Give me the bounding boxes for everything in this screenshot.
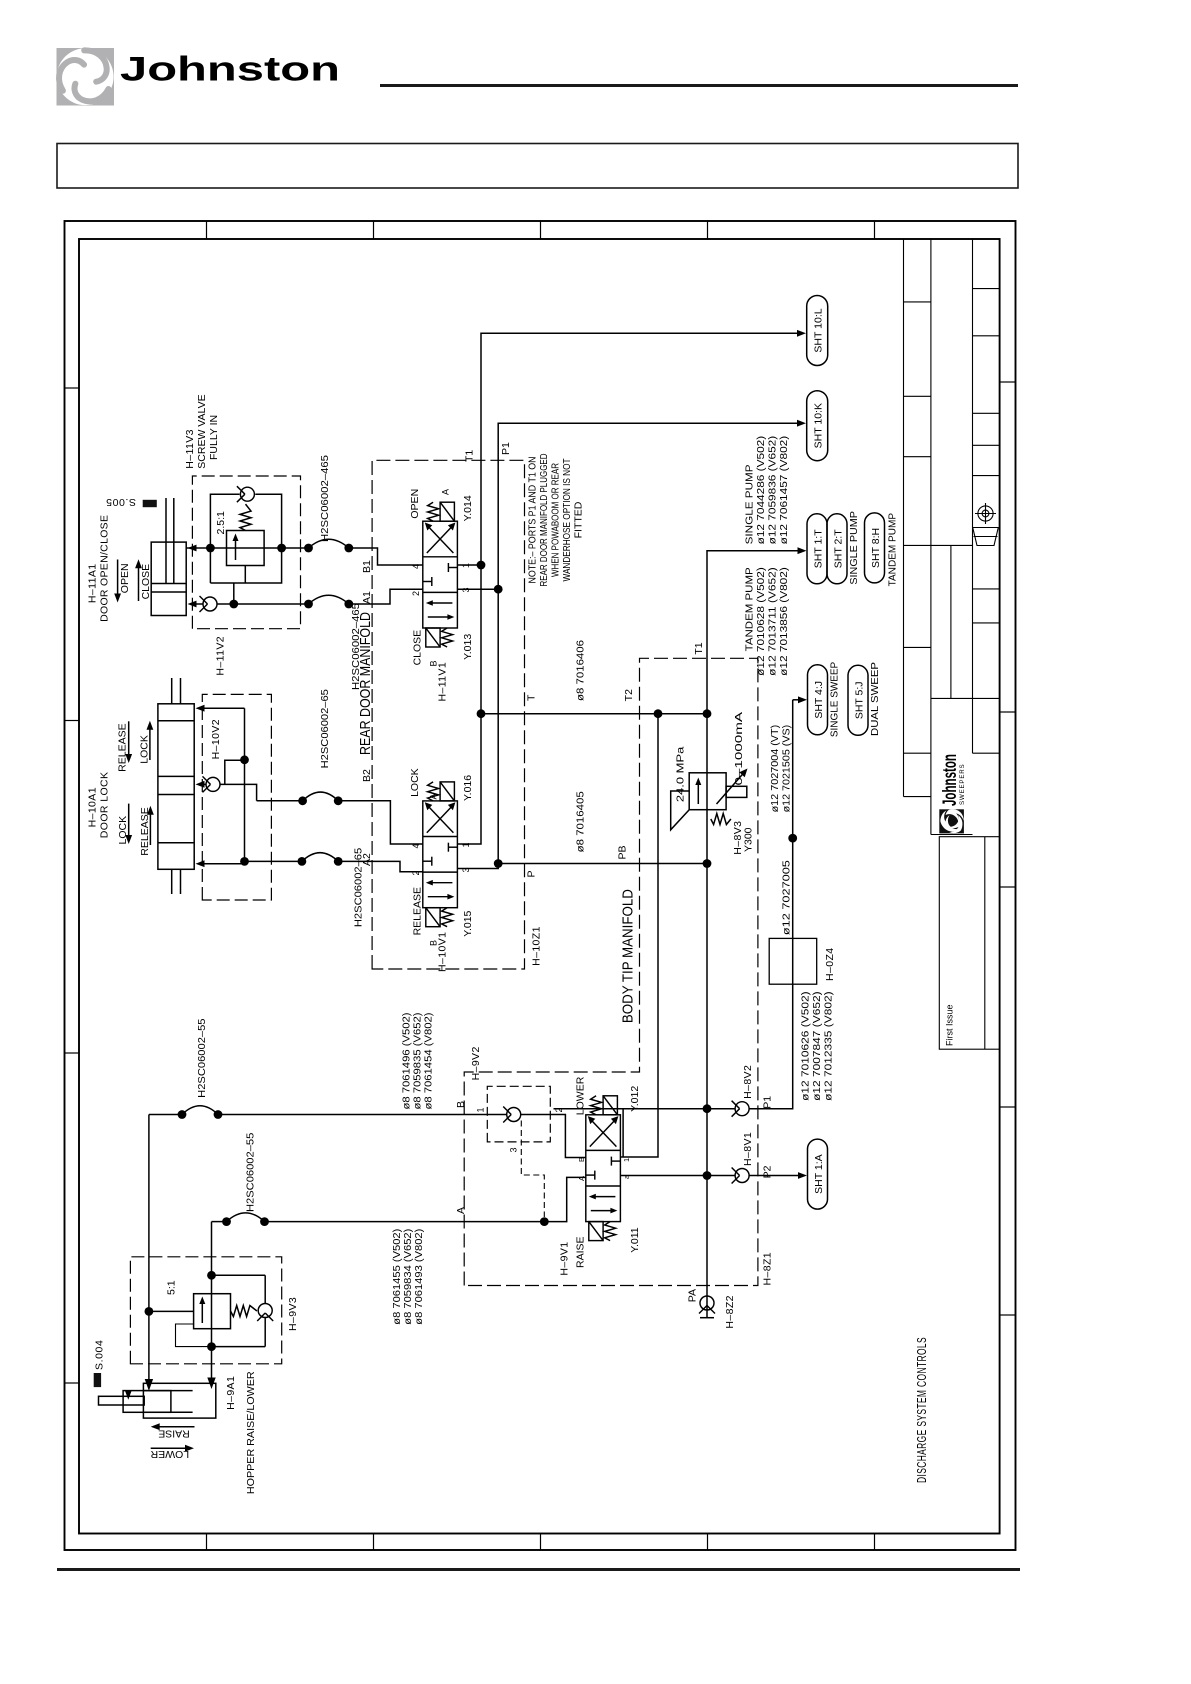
svg-text:ø8 7059834 (V652): ø8 7059834 (V652) bbox=[403, 1229, 414, 1325]
svg-text:ø12 7061457 (V802): ø12 7061457 (V802) bbox=[779, 436, 790, 545]
wire B1 riser bbox=[186, 545, 308, 552]
svg-text:B1: B1 bbox=[361, 560, 373, 573]
svg-text:H–9V3: H–9V3 bbox=[287, 1297, 299, 1331]
svg-text:ø12 7013711 (V652): ø12 7013711 (V652) bbox=[768, 567, 779, 676]
valve H-9V1 (Y.011 / Y.012) bbox=[586, 1096, 621, 1241]
wire A (hopper lower line) bbox=[125, 1222, 227, 1400]
svg-text:SHT 1:A: SHT 1:A bbox=[813, 1154, 825, 1194]
svg-text:H–10V1: H–10V1 bbox=[437, 932, 449, 972]
relief square H-11V3 bbox=[227, 531, 265, 584]
svg-text:H2SC06002–65: H2SC06002–65 bbox=[319, 689, 331, 768]
NOTE text block bbox=[527, 453, 585, 586]
pilot line H-9V2 (dashed) bbox=[521, 1121, 544, 1218]
T1 rail bbox=[457, 333, 798, 844]
wire A to valve port A bbox=[544, 1177, 586, 1221]
svg-text:SHT 10:L: SHT 10:L bbox=[813, 308, 825, 352]
svg-text:SINGLE SWEEP: SINGLE SWEEP bbox=[829, 662, 841, 737]
svg-text:ø12 7010626 (V502): ø12 7010626 (V502) bbox=[801, 991, 812, 1101]
revision table (First Issue) bbox=[939, 837, 999, 1049]
svg-text:H–9A1: H–9A1 bbox=[225, 1376, 237, 1410]
junction dot A line bbox=[540, 1217, 549, 1226]
wire P1 drop (H-9V2 port 2 down through H-8V2) bbox=[554, 704, 793, 1109]
bubble SHT 2:T bbox=[827, 514, 847, 584]
part numbers VT/VS bbox=[770, 725, 793, 813]
svg-text:LOCK: LOCK bbox=[117, 816, 129, 845]
row2 cell dividers bbox=[931, 697, 973, 699]
check valve H-8V1 bbox=[732, 1168, 750, 1184]
hose H2SC06002-465 (B1) bbox=[304, 455, 353, 553]
svg-text:CLOSE: CLOSE bbox=[412, 630, 424, 666]
svg-text:Johnston: Johnston bbox=[940, 754, 961, 806]
svg-text:SHT 2:T: SHT 2:T bbox=[833, 529, 845, 568]
svg-text:SCREW VALVE: SCREW VALVE bbox=[196, 394, 208, 468]
arrow into SHT 10:K bbox=[797, 420, 806, 427]
svg-text:OPEN: OPEN bbox=[119, 563, 131, 593]
svg-text:T2: T2 bbox=[623, 689, 635, 701]
svg-text:H–0Z4: H–0Z4 bbox=[824, 947, 836, 981]
part numbers tandem pump bbox=[745, 567, 791, 676]
RAISE arrow bbox=[151, 1423, 195, 1439]
T drop from rear door manifold bbox=[481, 713, 707, 715]
CLOSE arrow bbox=[135, 559, 152, 601]
svg-text:P1: P1 bbox=[500, 442, 512, 455]
svg-text:H–10V2: H–10V2 bbox=[210, 719, 222, 759]
svg-text:B: B bbox=[429, 660, 439, 666]
svg-text:SINGLE PUMP: SINGLE PUMP bbox=[848, 511, 860, 585]
valve H-10V1 (Y.015 / Y.016) bbox=[423, 782, 458, 927]
P drop from rear door manifold bbox=[498, 863, 707, 865]
arrow into SHT 4:J bbox=[793, 696, 807, 704]
wire B2 to valve port 4 bbox=[338, 801, 423, 844]
svg-text:P: P bbox=[526, 870, 538, 877]
svg-text:LOCK: LOCK bbox=[409, 768, 421, 797]
svg-text:Y.016: Y.016 bbox=[462, 775, 474, 801]
svg-text:NOTE:– PORTS P1 AND T1 ON: NOTE:– PORTS P1 AND T1 ON bbox=[527, 457, 539, 584]
svg-text:B2: B2 bbox=[361, 769, 373, 782]
svg-text:2: 2 bbox=[411, 591, 421, 596]
svg-text:T1: T1 bbox=[464, 450, 476, 462]
svg-text:T1: T1 bbox=[693, 642, 705, 654]
proportional solenoid H-8V3 bbox=[726, 786, 747, 797]
svg-text:LOCK: LOCK bbox=[139, 735, 151, 764]
svg-text:Johnston: Johnston bbox=[120, 51, 340, 89]
svg-text:H2SC06002–55: H2SC06002–55 bbox=[196, 1018, 208, 1097]
footer rule bbox=[57, 1568, 1020, 1571]
svg-text:H–11V1: H–11V1 bbox=[437, 662, 449, 702]
junction dot P1 pump branch bbox=[788, 834, 797, 843]
svg-text:T: T bbox=[526, 694, 538, 701]
manifold H-11V2/V3 dashed box bbox=[192, 476, 300, 629]
plug tick PA end bbox=[700, 1317, 714, 1319]
svg-text:H–11V2: H–11V2 bbox=[215, 636, 227, 676]
svg-text:RELEASE: RELEASE bbox=[412, 887, 424, 935]
proportional relief H-8V3 square bbox=[689, 773, 726, 810]
part numbers P lines bbox=[801, 991, 835, 1101]
pilot loop H-11V3 bbox=[206, 494, 286, 583]
svg-text:5:1: 5:1 bbox=[166, 1280, 178, 1295]
svg-text:H–10A1: H–10A1 bbox=[87, 787, 99, 827]
svg-text:HOPPER RAISE/LOWER: HOPPER RAISE/LOWER bbox=[245, 1371, 257, 1494]
tank trunk line T1 bbox=[707, 551, 801, 1318]
margin zone ticks bottom bbox=[1000, 382, 1016, 1315]
svg-text:SHT 10:K: SHT 10:K bbox=[813, 403, 825, 448]
RELEASE/LOCK arrows right pair bbox=[117, 721, 154, 772]
svg-text:RELEASE: RELEASE bbox=[117, 723, 129, 771]
svg-text:Y.015: Y.015 bbox=[462, 910, 474, 936]
ball check H-9V3 bbox=[257, 1304, 273, 1322]
wire rod end to loop bbox=[196, 705, 245, 712]
svg-text:WHEN POWABOOM OR REAR: WHEN POWABOOM OR REAR bbox=[550, 463, 562, 577]
svg-text:PB: PB bbox=[617, 845, 629, 859]
manifold H-9V3 dashed box bbox=[130, 1257, 281, 1364]
margin zone ticks top bbox=[65, 388, 80, 1383]
svg-text:TANDEM PUMP: TANDEM PUMP bbox=[745, 567, 756, 651]
arrow into SHT 10:L bbox=[797, 330, 806, 337]
svg-text:3: 3 bbox=[509, 1147, 519, 1152]
svg-text:B: B bbox=[455, 1101, 467, 1108]
svg-text:H–10Z1: H–10Z1 bbox=[531, 926, 543, 966]
check valve H-10V2 bbox=[203, 776, 221, 792]
svg-text:1: 1 bbox=[622, 1158, 631, 1162]
svg-text:ø12 7012335 (V802): ø12 7012335 (V802) bbox=[824, 991, 835, 1101]
cylinder H-9A1 (telescopic, 3 stage) bbox=[99, 1383, 216, 1418]
wire B1 to valve port 4 bbox=[349, 548, 423, 565]
svg-text:Y.013: Y.013 bbox=[462, 634, 474, 660]
svg-text:ø8 7061454 (V802): ø8 7061454 (V802) bbox=[424, 1013, 435, 1110]
svg-text:2.5:1: 2.5:1 bbox=[215, 511, 227, 535]
svg-text:H2SC06002–465: H2SC06002–465 bbox=[350, 603, 362, 690]
wire B through H-9V2 to valve port B bbox=[521, 1115, 586, 1158]
spring H-9V3 bbox=[231, 1306, 257, 1317]
wire B (hopper raise line) bbox=[145, 1115, 182, 1391]
svg-text:PA: PA bbox=[687, 1289, 699, 1302]
wire A riser bbox=[265, 1221, 545, 1223]
svg-text:SHT 8:H: SHT 8:H bbox=[870, 528, 882, 568]
subplate H-0Z4 bbox=[769, 938, 817, 984]
wire P2 drop (valve port a to SHT 1:A) bbox=[620, 1175, 800, 1177]
svg-text:TANDEM PUMP: TANDEM PUMP bbox=[887, 513, 899, 587]
svg-text:3: 3 bbox=[461, 587, 471, 592]
bubble SHT 10:L bbox=[807, 296, 828, 366]
svg-text:DOOR OPEN/CLOSE: DOOR OPEN/CLOSE bbox=[99, 515, 111, 622]
wire B riser to H-9V2 bbox=[218, 1114, 507, 1116]
LOWER arrow bbox=[150, 1445, 194, 1460]
arrow into SHT 1:A bbox=[798, 1172, 807, 1179]
title block left edges bbox=[904, 796, 931, 798]
svg-text:P2: P2 bbox=[762, 1165, 774, 1178]
wire A1 to valve port 2 bbox=[349, 589, 423, 604]
wire valve port 1 to T2 branch bbox=[620, 714, 658, 1157]
pilot check valve H-9V2 dashed box bbox=[487, 1086, 550, 1142]
svg-text:CLOSE: CLOSE bbox=[140, 564, 152, 600]
svg-text:S.004: S.004 bbox=[94, 1340, 106, 1370]
check valve H-8Z2 bbox=[699, 1296, 715, 1314]
svg-text:ø12 7021505 (VS): ø12 7021505 (VS) bbox=[782, 725, 793, 813]
Johnston Sweepers small logo in title block bbox=[939, 754, 966, 833]
spring H-8V3 bbox=[711, 814, 731, 825]
hose H2SC06002-55 (A) bbox=[222, 1133, 269, 1226]
svg-text:P1: P1 bbox=[762, 1096, 774, 1109]
svg-text:First Issue: First Issue bbox=[945, 1004, 955, 1046]
svg-text:FITTED: FITTED bbox=[573, 501, 585, 538]
svg-text:LOWER: LOWER bbox=[150, 1448, 189, 1460]
part numbers single pump bbox=[745, 436, 791, 545]
junction dot B/branch H-9V3 bbox=[145, 1307, 154, 1316]
svg-text:H–11A1: H–11A1 bbox=[87, 564, 99, 604]
svg-text:SHT 4:J: SHT 4:J bbox=[813, 681, 825, 719]
third angle projection symbol bbox=[973, 503, 999, 546]
svg-text:Y.014: Y.014 bbox=[462, 495, 474, 521]
svg-text:RAISE: RAISE bbox=[158, 1427, 190, 1439]
bypass wire with ball check bbox=[207, 1275, 265, 1351]
LOCK/RELEASE arrows left pair bbox=[117, 804, 154, 856]
cylinder H-10A1 (double rod) bbox=[158, 678, 194, 894]
wire A2 to valve port 2 bbox=[338, 861, 423, 871]
svg-text:ø12 7059836 (V652): ø12 7059836 (V652) bbox=[768, 436, 779, 545]
svg-text:ø8 7061496 (V502): ø8 7061496 (V502) bbox=[402, 1013, 413, 1110]
svg-text:ø8 7059835 (V652): ø8 7059835 (V652) bbox=[413, 1013, 424, 1110]
svg-text:H–9V2: H–9V2 bbox=[470, 1046, 482, 1080]
wire lock port through check H-10V2 bbox=[196, 760, 257, 801]
svg-text:H–8V1: H–8V1 bbox=[742, 1132, 754, 1166]
svg-text:SHT 5:J: SHT 5:J bbox=[854, 681, 866, 719]
svg-text:H2SC06002–465: H2SC06002–465 bbox=[319, 455, 331, 542]
svg-text:H–8Z1: H–8Z1 bbox=[762, 1252, 774, 1286]
valve H-11V1 (Y.013 / Y.014) bbox=[423, 502, 458, 647]
svg-text:SWEEPERS: SWEEPERS bbox=[959, 764, 966, 805]
inner border frame bbox=[79, 239, 1000, 1534]
check valve H-9V2 bbox=[503, 1107, 521, 1123]
svg-text:REAR DOOR MANIFOLD PLUGGED: REAR DOOR MANIFOLD PLUGGED bbox=[538, 453, 550, 586]
svg-text:OPEN: OPEN bbox=[409, 489, 421, 519]
pilot drain collector H-8V3 bbox=[671, 791, 690, 830]
header rule bbox=[380, 84, 1018, 87]
labels H-11V3 SCREW VALVE FULLY IN bbox=[184, 394, 220, 468]
proportional arrow bbox=[717, 769, 748, 805]
svg-text:0–1000mA: 0–1000mA bbox=[733, 712, 745, 786]
row1 cell dividers bbox=[904, 752, 931, 754]
svg-text:Y.011: Y.011 bbox=[629, 1227, 641, 1252]
bubble SHT 4:J bbox=[808, 665, 828, 735]
svg-text:H2SC06002–55: H2SC06002–55 bbox=[245, 1133, 257, 1212]
bubble SHT 1:A bbox=[808, 1139, 828, 1209]
check valve H-8V2 bbox=[732, 1101, 750, 1117]
cylinder H-11A1 bbox=[151, 498, 186, 616]
bubble SHT 10:K bbox=[807, 391, 828, 461]
svg-text:1: 1 bbox=[476, 1107, 486, 1112]
manifold H-10V2 dashed box bbox=[202, 694, 271, 900]
svg-text:ø8 7061493 (V802): ø8 7061493 (V802) bbox=[414, 1229, 425, 1325]
manifold H-8Z1 dashed boundary (L shape) bbox=[464, 658, 758, 1285]
row3 cell dividers bbox=[973, 697, 1000, 699]
Johnston logo square bbox=[52, 48, 114, 109]
svg-text:WANDERHOSE OPTION IS NOT: WANDERHOSE OPTION IS NOT bbox=[561, 458, 573, 581]
margin zone ticks right bbox=[207, 221, 875, 239]
H-11V1 port drops to rails bbox=[457, 564, 481, 566]
svg-text:1: 1 bbox=[461, 842, 471, 847]
part numbers hose B bbox=[402, 1013, 435, 1110]
bubble SHT 5:J bbox=[848, 665, 868, 735]
hose H2SC06002-55 (B) bbox=[178, 1018, 223, 1119]
svg-text:RAISE: RAISE bbox=[575, 1236, 587, 1268]
svg-text:A: A bbox=[429, 793, 439, 799]
ball check H-11V3 bbox=[237, 486, 255, 502]
svg-text:ø12 7027004 (VT): ø12 7027004 (VT) bbox=[770, 725, 781, 813]
svg-text:SHT 1:T: SHT 1:T bbox=[813, 529, 825, 568]
title block row lines bbox=[903, 239, 905, 797]
OPEN arrow bbox=[114, 560, 131, 603]
wire A1 riser bbox=[188, 583, 309, 608]
hose H2SC06002-65 (A2) bbox=[298, 848, 365, 927]
junction dot A/pilot H-9V3 bbox=[207, 1271, 216, 1280]
svg-text:B: B bbox=[429, 940, 439, 946]
svg-text:RELEASE: RELEASE bbox=[139, 807, 151, 855]
svg-text:DOOR LOCK: DOOR LOCK bbox=[99, 772, 111, 839]
svg-text:ø12 7044286 (V502): ø12 7044286 (V502) bbox=[756, 436, 767, 545]
svg-text:ø12 7027005: ø12 7027005 bbox=[781, 860, 793, 935]
svg-text:ø12 7013856 (V802): ø12 7013856 (V802) bbox=[779, 567, 790, 676]
svg-text:ø12 7010628 (V502): ø12 7010628 (V502) bbox=[756, 567, 767, 676]
svg-text:A2: A2 bbox=[361, 853, 373, 866]
part numbers hose A bbox=[392, 1229, 425, 1325]
svg-text:DISCHARGE SYSTEM CONTROLS: DISCHARGE SYSTEM CONTROLS bbox=[914, 1337, 929, 1483]
hose H2SC06002-465 (A1) bbox=[304, 595, 362, 690]
svg-text:S.005: S.005 bbox=[106, 496, 136, 508]
svg-text:H–8Z2: H–8Z2 bbox=[724, 1295, 736, 1329]
wire B2 riser bbox=[257, 800, 303, 802]
svg-text:SINGLE PUMP: SINGLE PUMP bbox=[745, 464, 756, 544]
junction dots on trunk bbox=[703, 1171, 712, 1180]
svg-text:H–8V2: H–8V2 bbox=[742, 1065, 754, 1099]
relief valve H-9V3 square bbox=[149, 1294, 231, 1329]
svg-text:A: A bbox=[441, 489, 451, 495]
svg-text:ø8 7016405: ø8 7016405 bbox=[575, 791, 587, 852]
svg-text:A1: A1 bbox=[361, 591, 373, 604]
S.004 marker bbox=[94, 1340, 106, 1388]
svg-text:H–9V1: H–9V1 bbox=[559, 1241, 571, 1275]
check valve H-11V2 on A1 bbox=[200, 596, 218, 612]
svg-text:A: A bbox=[577, 1176, 586, 1181]
outer border frame bbox=[65, 221, 1016, 1550]
wire A2 riser bbox=[196, 860, 302, 867]
wire port1 stub to P1 drop bbox=[622, 1109, 624, 1157]
svg-text:H–11V3: H–11V3 bbox=[184, 429, 196, 469]
pilot stub H-9V3 bbox=[176, 1324, 212, 1347]
header empty box bbox=[57, 144, 1018, 189]
svg-text:24.0 MPa: 24.0 MPa bbox=[675, 747, 687, 803]
svg-text:BODY TIP MANIFOLD: BODY TIP MANIFOLD bbox=[620, 889, 637, 1023]
svg-text:B: B bbox=[577, 1157, 586, 1162]
P1 rail bbox=[457, 423, 798, 868]
margin zone ticks left bbox=[207, 1534, 875, 1551]
svg-text:ø8 7016406: ø8 7016406 bbox=[575, 640, 587, 701]
manifold H-10Z1 dashed box bbox=[372, 460, 524, 969]
hose H2SC06002-65 (B2) bbox=[298, 689, 342, 805]
bubble SHT 8:H bbox=[865, 513, 885, 583]
bubble SHT 1:T bbox=[807, 514, 827, 584]
svg-text:A: A bbox=[455, 1207, 467, 1214]
S.005 marker bbox=[106, 496, 157, 508]
spring H-11V3 bbox=[240, 504, 251, 530]
svg-text:Y300: Y300 bbox=[743, 827, 755, 852]
svg-text:ø12 7007847 (V652): ø12 7007847 (V652) bbox=[812, 991, 823, 1101]
svg-text:DUAL SWEEP: DUAL SWEEP bbox=[869, 662, 881, 736]
svg-text:FULLY IN: FULLY IN bbox=[208, 415, 220, 460]
loop wire ly180 bbox=[244, 708, 246, 861]
arrow into SHT 1:T bbox=[798, 547, 807, 554]
svg-text:ø8 7061455 (V502): ø8 7061455 (V502) bbox=[392, 1229, 403, 1325]
